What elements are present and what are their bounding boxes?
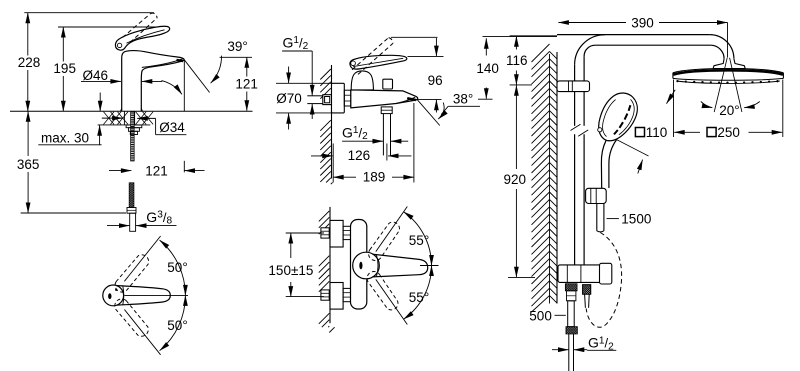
dimension 250 line left+arrow — [674, 131, 700, 133]
top view handle +50deg position (dashed) — [112, 252, 151, 295]
20deg left arc arrow — [701, 102, 713, 108]
bracket reference line — [510, 84, 532, 86]
label D46 underline+arrow — [81, 81, 112, 83]
reference line 116/140 segment — [483, 36, 558, 38]
basin mixer base flare — [121, 109, 143, 112]
svg-text:96: 96 — [428, 73, 443, 88]
label D46 right arrow — [142, 80, 163, 82]
handle cap slot — [359, 262, 362, 270]
wall bracket — [557, 81, 590, 92]
mounting nut — [129, 128, 140, 132]
bath mixer handle pivot detail — [351, 61, 356, 66]
supply knurled nut upper — [565, 284, 577, 291]
wall hatch (top view) — [319, 211, 330, 222]
dimension 365 bottom reference line — [21, 212, 126, 214]
D70 arrows — [288, 67, 290, 84]
svg-text:116: 116 — [506, 53, 528, 68]
bath mixer wall rosette — [332, 83, 345, 113]
55deg lower angle line — [376, 279, 408, 324]
390 extension line to head center — [727, 23, 729, 58]
39 deg arc right with arrow — [211, 56, 222, 84]
hand shower button — [598, 128, 602, 132]
dimension 390 line+arrows — [558, 22, 626, 24]
svg-text:195: 195 — [53, 61, 76, 76]
threaded shank — [131, 111, 135, 135]
front handle bar — [373, 254, 428, 277]
svg-text:189: 189 — [363, 170, 386, 185]
svg-text:Ø34: Ø34 — [159, 120, 185, 135]
riser break symbol — [571, 124, 581, 130]
55deg lower arc with arrows — [404, 266, 432, 320]
label G3/8 underline — [145, 225, 177, 227]
wall extension line (189/126) — [332, 144, 334, 183]
stream direction line 39deg — [184, 60, 209, 93]
G1/2 arrow down to supply pipe — [311, 51, 313, 95]
svg-text:20°: 20° — [719, 103, 739, 118]
top view handle cap details — [108, 293, 111, 299]
50deg lower angle line — [124, 310, 160, 355]
hand shower hose — [596, 204, 598, 231]
shower head top edge — [673, 69, 784, 73]
top view handle cap — [103, 285, 124, 306]
supply pipe bottom — [568, 334, 570, 371]
bottom bracket — [558, 265, 602, 283]
svg-text:55°: 55° — [409, 233, 429, 248]
basin mixer body and spout outline — [122, 50, 184, 111]
basin mixer: top reference line (228) — [24, 12, 154, 14]
top union nut — [343, 226, 350, 239]
D34 arrows — [102, 117, 123, 119]
front handle +55deg (dashed) — [366, 219, 402, 263]
supply hose middle — [568, 301, 575, 327]
hand shower face dashes — [614, 105, 630, 134]
dimension 189 right extension line — [413, 103, 415, 183]
svg-text:365: 365 — [17, 157, 40, 172]
max30 arrow up to counter bottom — [99, 125, 101, 145]
hand shower handle — [601, 141, 606, 188]
svg-text:Ø46: Ø46 — [83, 68, 109, 83]
shower head bottom — [673, 78, 784, 80]
counter bottom line — [98, 124, 151, 126]
reference line 116 top — [510, 35, 557, 37]
svg-text:390: 390 — [631, 15, 654, 30]
cartridge dome — [351, 71, 373, 90]
square250 symbol — [707, 128, 716, 137]
svg-text:max. 30: max. 30 — [41, 130, 89, 145]
D70 extension lines — [276, 82, 332, 84]
dimension 150 line+arrows — [290, 233, 292, 258]
svg-text:121: 121 — [235, 77, 258, 92]
supply knurled nut lower — [566, 327, 577, 334]
250 extension lines — [673, 80, 675, 138]
head connector — [713, 59, 745, 69]
spout outlet reference line — [413, 98, 441, 100]
square110 symbol — [635, 128, 644, 137]
bath outlet pipe — [382, 114, 384, 156]
svg-text:920: 920 — [504, 172, 527, 187]
dimension 121 bottom extension line — [183, 161, 185, 173]
mounting nut 2 — [130, 131, 137, 134]
svg-text:50°: 50° — [167, 318, 187, 333]
svg-text:121: 121 — [145, 164, 168, 179]
centerline 55 — [420, 265, 439, 267]
bath mixer aerator tick — [407, 97, 417, 101]
front handle -55deg (dashed) — [364, 269, 400, 313]
svg-text:50°: 50° — [167, 260, 187, 275]
svg-text:500: 500 — [529, 308, 552, 323]
label max30 underline — [38, 144, 101, 146]
svg-text:Ø70: Ø70 — [276, 91, 302, 106]
G1/2 arrow up to supply pipe bottom — [311, 104, 313, 119]
shower head sides — [672, 73, 674, 79]
svg-text:126: 126 — [348, 148, 371, 163]
G1/2 middle arrow left — [391, 140, 408, 142]
supply pipe stub — [307, 95, 323, 97]
hose nut — [127, 208, 136, 214]
label 1500 leader — [607, 218, 619, 220]
diverter knob — [383, 79, 393, 89]
svg-text:140: 140 — [476, 61, 499, 76]
threaded rod below — [131, 135, 135, 162]
dimension 121 vertical line+arrows — [246, 57, 248, 76]
handle cap front view — [353, 252, 380, 279]
counter section hatch — [104, 112, 115, 125]
svg-text:55°: 55° — [409, 290, 429, 305]
dimension 121 bottom arrows — [109, 170, 131, 172]
bath mixer handle raised (dashed) — [352, 38, 389, 70]
dimension 250 line right+arrow — [749, 131, 783, 133]
shower arm — [557, 34, 710, 36]
50deg upper angle line — [124, 236, 160, 281]
label G1/2 middle underline — [342, 140, 377, 142]
max30 arrow down to deck — [99, 93, 101, 112]
label 500 leader — [555, 314, 566, 316]
bath outlet nut — [381, 107, 392, 114]
counter deck line — [10, 110, 253, 112]
reference line over dashed handle (140 top) — [391, 36, 438, 38]
riser pipe — [574, 65, 576, 126]
svg-text:39°: 39° — [227, 39, 247, 54]
riser bend to arm — [575, 35, 605, 65]
dimension 150 extension lines — [286, 232, 324, 234]
55deg upper angle line — [376, 207, 408, 252]
39 deg reference line — [220, 56, 252, 58]
38deg arc with arrow — [438, 103, 444, 120]
wall section face (top view) — [329, 207, 331, 323]
hand shower holder — [586, 188, 607, 203]
svg-text:38°: 38° — [453, 91, 473, 106]
svg-text:110: 110 — [646, 125, 668, 140]
dimension 126 right extension line — [386, 144, 388, 161]
svg-text:150±15: 150±15 — [268, 263, 313, 278]
hand shower head — [599, 93, 638, 141]
dimension 195 line+arrows — [62, 27, 64, 62]
spout outlet vertical line — [183, 60, 185, 111]
basin mixer: handle-top reference line (195) — [58, 26, 169, 28]
shower wall herringbone hatch — [549, 54, 551, 304]
basin mixer handle raised position (dashed) — [123, 14, 151, 38]
nozzle dots — [676, 80, 678, 82]
G3/8 arrows — [107, 225, 130, 227]
D34 leader corner — [155, 118, 157, 134]
hex nut behind wall top — [321, 228, 329, 238]
G1/2 middle arrow right — [372, 140, 383, 142]
top rosette — [330, 220, 343, 247]
20deg right arc arrow — [744, 102, 760, 108]
basin mixer lever handle — [115, 26, 169, 50]
dimension 920 line+arrows — [515, 85, 517, 169]
outlet stub right — [584, 294, 587, 308]
shower head dark rim — [673, 70, 783, 74]
shower wall face — [556, 52, 558, 304]
20deg spray lines — [714, 58, 727, 112]
50deg lower arc with arrows — [160, 295, 186, 350]
basin mixer aerator tick — [176, 59, 184, 63]
hose end tube — [130, 213, 136, 231]
label D34 underline — [156, 134, 187, 136]
bottom rosette — [330, 283, 343, 310]
svg-text:228: 228 — [18, 55, 41, 70]
stream direction line 38deg — [417, 100, 439, 126]
110 leader arrow lower — [638, 160, 643, 174]
bath mixer lever handle — [350, 55, 407, 69]
label G1/2 top underline — [282, 50, 312, 52]
dimension 365 line+arrows — [27, 111, 29, 156]
55deg upper arc with arrows — [404, 212, 432, 266]
supply nut upper — [567, 291, 576, 301]
wall fitting square — [323, 95, 332, 105]
top view handle bar — [117, 286, 171, 306]
dimension 228 line+arrows — [27, 13, 29, 56]
dimension 189 line+arrows — [333, 176, 356, 178]
horizontal centerline — [125, 294, 189, 296]
dimension 140 arrows — [485, 38, 487, 55]
supply hose braided section — [129, 183, 134, 208]
dimension 96 arrows — [435, 38, 437, 56]
39 deg arc left with arrow — [162, 81, 182, 95]
counter hole edges — [123, 111, 125, 125]
svg-text:250: 250 — [717, 125, 740, 140]
110 leader arrow upper — [667, 90, 676, 104]
label 38deg underline+leader — [448, 105, 480, 107]
hand shower axis line — [613, 138, 649, 157]
920 bottom reference line — [508, 276, 535, 278]
basin mixer handle pivot detail — [117, 43, 121, 47]
bottom union nut — [343, 288, 350, 301]
dimension 126 arrows — [311, 155, 333, 157]
svg-text:1500: 1500 — [621, 211, 651, 226]
hose loop (dashed) — [586, 233, 621, 328]
bath mixer union nut — [344, 90, 351, 106]
bath mixer body — [351, 90, 418, 108]
label G1/2 bottom underline — [587, 349, 616, 351]
G1/2 bottom arrows — [552, 349, 569, 351]
wall hatch (bath mixer side view) — [320, 69, 331, 80]
dimension 116 line+arrows — [515, 36, 517, 49]
wall section face (bath mixer side view) — [331, 65, 333, 179]
hex nut behind wall bottom — [321, 290, 329, 300]
50deg upper arc with arrows — [160, 240, 186, 295]
outlet nut right — [583, 285, 591, 295]
mounting washer — [126, 125, 142, 128]
reference line handle top (96) — [408, 55, 444, 57]
mixer body front view — [351, 220, 367, 310]
top view handle -50deg position (dashed) — [112, 296, 151, 339]
